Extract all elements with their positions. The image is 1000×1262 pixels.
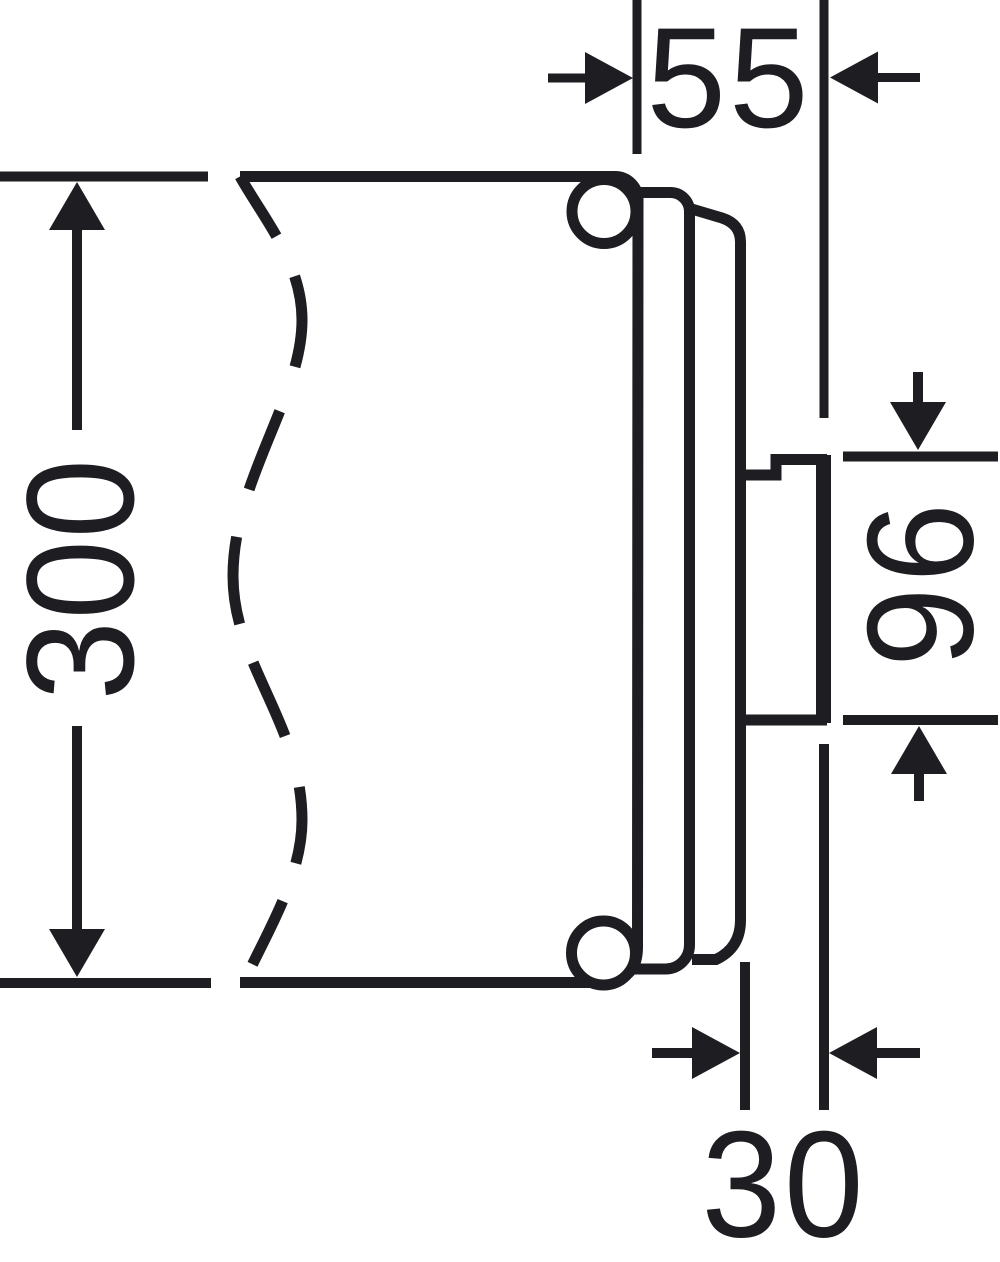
300 extension line top (0, 172, 208, 182)
55 extension line left (633, 0, 642, 154)
96 arrowhead down (890, 402, 946, 450)
300 extension line bottom (0, 978, 211, 988)
hinge pin circle top (572, 180, 636, 244)
wall mounting bracket (741, 460, 822, 721)
lid side wall (wall2) (632, 193, 690, 970)
30 extension line right (819, 744, 829, 1110)
dimension 96 (843, 372, 998, 801)
55 arrowhead right (830, 52, 878, 104)
svg-text:30: 30 (701, 1101, 866, 1262)
300 arrowhead down (49, 929, 105, 977)
30 arrow right tail (875, 1048, 920, 1058)
30 extension line left (740, 962, 750, 1110)
dashed break line (233, 177, 302, 984)
55 arrow right tail (876, 73, 920, 82)
enclosure bottom edge (240, 977, 590, 988)
300 dimension line upper (72, 228, 82, 430)
96 extension line top (843, 452, 998, 462)
55 arrow left tail (548, 74, 588, 83)
55 extension line right (820, 0, 829, 418)
enclosure top edge with corner into wall1 (240, 177, 638, 974)
svg-text:55: 55 (646, 0, 811, 158)
box outer wall (wall3) (690, 209, 741, 960)
300 dimension line lower (72, 726, 82, 932)
30 arrowhead left (692, 1027, 740, 1079)
bracket right edge / extension overlap (821, 455, 831, 723)
svg-text:96: 96 (837, 498, 1000, 667)
dimension 55 (548, 0, 920, 418)
96 arrowhead up (891, 726, 947, 774)
30 arrow left tail (652, 1048, 692, 1058)
dimension 30 (652, 744, 920, 1110)
hinge pin circle bottom (572, 921, 636, 985)
dimension 300 (0, 177, 211, 984)
30 arrowhead right (829, 1027, 877, 1079)
300 arrowhead up (49, 182, 105, 230)
svg-text:300: 300 (0, 457, 166, 700)
96 arrow down tail (913, 372, 923, 404)
96 extension line bottom (843, 715, 998, 725)
96 arrow up tail (914, 772, 924, 801)
55 arrowhead left (585, 52, 633, 104)
